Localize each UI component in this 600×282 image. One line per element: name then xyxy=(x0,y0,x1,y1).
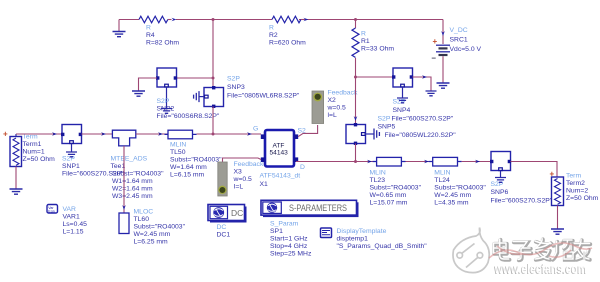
DC block DC1 xyxy=(208,205,247,239)
wire SNP2 to node A xyxy=(177,77,214,79)
wire SNP6 to Term2 xyxy=(511,162,558,178)
S2P SNP4 xyxy=(392,68,454,123)
svg-text:Num=2: Num=2 xyxy=(566,188,588,195)
ground SNP5 ref (rotated right) xyxy=(374,129,379,140)
svg-text:W1=1.64 mm: W1=1.64 mm xyxy=(112,178,153,185)
svg-text:X3: X3 xyxy=(234,169,243,176)
ground SNP4 ref xyxy=(397,98,408,103)
wire node A vertical x213 xyxy=(212,20,214,88)
svg-text:TL50: TL50 xyxy=(170,149,186,156)
svg-text:54143: 54143 xyxy=(270,150,289,157)
svg-text:Z=50 Ohm: Z=50 Ohm xyxy=(23,156,56,163)
svg-text:S2P: S2P xyxy=(62,156,75,163)
svg-text:Num=1: Num=1 xyxy=(23,149,45,156)
svg-text:Vdc=5.0 V: Vdc=5.0 V xyxy=(450,46,482,53)
svg-text:DC: DC xyxy=(231,208,243,218)
wire input row xyxy=(16,133,62,135)
svg-text:R: R xyxy=(361,31,366,38)
svg-text:r: r xyxy=(582,247,588,264)
svg-text:DisplayTemplate: DisplayTemplate xyxy=(337,228,387,235)
svg-text:R4: R4 xyxy=(146,32,155,39)
wire top rail xyxy=(119,19,443,21)
svg-text:X1: X1 xyxy=(260,181,269,188)
resistor R4 xyxy=(139,16,179,46)
svg-text:S2P: S2P xyxy=(393,99,406,106)
transistor U1 ATF54143 xyxy=(260,130,301,188)
ground SNP2 input xyxy=(132,91,145,96)
svg-text:File="600S270.S2P": File="600S270.S2P" xyxy=(392,116,454,123)
svg-text:File="600S270.S2P": File="600S270.S2P" xyxy=(491,198,553,205)
junction top rail R1 xyxy=(354,18,357,21)
S2P SNP2 xyxy=(156,68,220,120)
svg-text:Step=25 MHz: Step=25 MHz xyxy=(270,251,312,258)
svg-text:L=4.35 mm: L=4.35 mm xyxy=(434,200,469,207)
svg-text:VAR1: VAR1 xyxy=(63,214,80,221)
svg-text:w=0.5: w=0.5 xyxy=(327,105,347,112)
svg-text:R=33 Ohm: R=33 Ohm xyxy=(361,46,394,53)
svg-text:ATF: ATF xyxy=(273,143,285,150)
svg-text:DC1: DC1 xyxy=(217,232,231,239)
wire SNP3 to input row xyxy=(212,107,214,135)
svg-text:SNP1: SNP1 xyxy=(62,163,80,170)
svg-text:V_DC: V_DC xyxy=(450,27,468,34)
ground SNP3 ref (rotated left) xyxy=(194,91,199,102)
junction x213/SNP2 xyxy=(212,77,215,80)
svg-text:G: G xyxy=(253,126,258,133)
svg-text:–: – xyxy=(432,54,437,63)
svg-text:Subst="RO4003": Subst="RO4003" xyxy=(434,185,486,192)
feedback X2 xyxy=(312,90,358,124)
watermark chinese text xyxy=(494,239,590,260)
svg-text:Tee1: Tee1 xyxy=(111,163,126,170)
svg-text:Z=50 Ohm: Z=50 Ohm xyxy=(566,195,599,202)
svg-text:Subst="RO4003": Subst="RO4003" xyxy=(134,224,186,231)
ground Term2 xyxy=(551,229,564,234)
wire SNP1 to Tee1 xyxy=(82,133,113,135)
svg-text:MTEE_ADS: MTEE_ADS xyxy=(111,156,148,163)
ground Term1 xyxy=(10,189,23,194)
resistor R1 xyxy=(352,20,394,78)
ground SNP1 ref xyxy=(66,152,77,157)
svg-text:+: + xyxy=(3,130,8,139)
wire SNP2 left to ground xyxy=(139,78,158,91)
svg-text:L=1.15: L=1.15 xyxy=(63,229,84,236)
junction node input row xyxy=(212,133,215,136)
ground top-left xyxy=(113,20,126,37)
svg-text:Term2: Term2 xyxy=(566,180,585,187)
svg-text:MLIN: MLIN xyxy=(434,170,450,177)
wire R1 node to SNP4 xyxy=(356,76,394,78)
svg-text:SNP3: SNP3 xyxy=(227,84,245,91)
svg-text:SRC1: SRC1 xyxy=(450,37,468,44)
svg-text:Subst="RO4003": Subst="RO4003" xyxy=(370,185,422,192)
svg-text:File="0805WL220.S2P": File="0805WL220.S2P" xyxy=(385,132,457,139)
MLIN TL23 xyxy=(370,157,422,206)
svg-text:Term1: Term1 xyxy=(23,141,42,148)
svg-text:MLIN: MLIN xyxy=(170,142,186,149)
wire Tee1 to TL50 xyxy=(136,133,168,135)
svg-text:File="600S6R8.S2P": File="600S6R8.S2P" xyxy=(157,113,220,120)
S2P SNP6 xyxy=(490,152,553,205)
S2P SNP1 xyxy=(61,125,124,178)
wire TL24 to SNP6 xyxy=(462,161,491,163)
svg-text:Feedback: Feedback xyxy=(328,90,358,97)
svg-text:W3=2.45 mm: W3=2.45 mm xyxy=(112,193,153,200)
watermark red tint strokes xyxy=(489,243,592,258)
ground SNP6 ref xyxy=(495,178,506,183)
wire TL50 to gate xyxy=(197,133,262,135)
wire SNP4 out to ground xyxy=(413,77,432,91)
svg-text:Subst="RO4003": Subst="RO4003" xyxy=(112,171,164,178)
svg-text:I=L: I=L xyxy=(234,184,244,191)
svg-text:L=15.07 mm: L=15.07 mm xyxy=(370,200,408,207)
svg-text:L=6.15 mm: L=6.15 mm xyxy=(170,172,205,179)
svg-text:R2: R2 xyxy=(269,32,278,39)
wire drain row xyxy=(296,161,377,163)
svg-text:disptemp1: disptemp1 xyxy=(337,236,369,243)
svg-text:S-PARAMETERS: S-PARAMETERS xyxy=(289,203,347,213)
svg-text:w=0.5: w=0.5 xyxy=(233,176,253,183)
svg-text:X2: X2 xyxy=(328,97,337,104)
svg-text:TL24: TL24 xyxy=(434,177,450,184)
svg-text:SP1: SP1 xyxy=(270,228,283,235)
svg-text:VAR: VAR xyxy=(63,206,77,213)
svg-text:ATF54143_dt: ATF54143_dt xyxy=(260,173,301,180)
DisplayTemplate disptemp1 xyxy=(321,228,428,250)
term Term1 xyxy=(3,130,55,189)
svg-text:S2P: S2P xyxy=(227,76,240,83)
svg-text:SNP5: SNP5 xyxy=(378,124,396,131)
ground SNP2 ref xyxy=(161,109,172,114)
MLIN TL24 xyxy=(429,157,487,206)
svg-text:S2P: S2P xyxy=(157,98,170,105)
svg-text:D: D xyxy=(300,164,305,171)
svg-text:W=1.64 mm: W=1.64 mm xyxy=(170,164,207,171)
svg-text:TL23: TL23 xyxy=(370,177,386,184)
svg-text:S_Param: S_Param xyxy=(270,221,299,228)
svg-text:Subst="RO4003": Subst="RO4003" xyxy=(170,157,222,164)
svg-text:S2P: S2P xyxy=(378,116,391,123)
MTEE_ADS Tee1 xyxy=(111,130,165,200)
svg-text:File="0805WL6R8.S2P": File="0805WL6R8.S2P" xyxy=(227,93,300,100)
DC source V_DC SRC1 xyxy=(432,20,482,83)
svg-text:R=82 Ohm: R=82 Ohm xyxy=(146,40,179,47)
term Term2 xyxy=(550,170,599,229)
svg-text:DC: DC xyxy=(217,224,227,231)
junction top rail x213 xyxy=(212,18,215,21)
svg-text:Ls=0.45: Ls=0.45 xyxy=(63,221,88,228)
svg-text:l=L: l=L xyxy=(328,112,337,119)
svg-text:L=6.25 mm: L=6.25 mm xyxy=(134,239,169,246)
resistor R2 xyxy=(269,16,309,46)
svg-text:Feedback: Feedback xyxy=(234,161,264,168)
ground under SRC1 xyxy=(437,83,450,88)
svg-text:W=0.65 mm: W=0.65 mm xyxy=(370,192,407,199)
svg-text:W=2.45 mm: W=2.45 mm xyxy=(134,231,171,238)
svg-text:Start=1 GHz: Start=1 GHz xyxy=(270,236,308,243)
svg-text:W2=1.64 mm: W2=1.64 mm xyxy=(112,186,153,193)
S2P SNP3 xyxy=(199,76,300,109)
wire TL23 to TL24 xyxy=(406,161,433,163)
svg-text:TL60: TL60 xyxy=(134,216,150,223)
svg-text:SNP6: SNP6 xyxy=(491,189,509,196)
svg-text:MLIN: MLIN xyxy=(370,170,386,177)
svg-text:R=620 Ohm: R=620 Ohm xyxy=(269,40,306,47)
MLOC TL60 xyxy=(119,209,186,246)
S-PARAMETERS block SP1 xyxy=(261,200,359,257)
wire S2 to feedback X2 xyxy=(298,125,317,137)
svg-text:R: R xyxy=(146,25,151,32)
svg-text:W=2.45 mm: W=2.45 mm xyxy=(434,192,471,199)
ground SNP4 out xyxy=(426,91,437,96)
svg-text:Term: Term xyxy=(566,173,581,180)
svg-text:Eqn: Eqn xyxy=(48,210,54,214)
wire Tee1 stub down to TL60 xyxy=(123,146,125,213)
wire SNP5 to drain row xyxy=(355,144,357,162)
svg-text:MLOC: MLOC xyxy=(134,209,154,216)
svg-text:"S_Params_Quad_dB_Smith": "S_Params_Quad_dB_Smith" xyxy=(337,243,428,250)
VAR VAR1 xyxy=(47,205,87,236)
svg-text:www.elecfans.com: www.elecfans.com xyxy=(494,260,587,276)
MLIN TL50 xyxy=(165,130,223,178)
watermark molecule logo xyxy=(453,228,489,273)
feedback X3 xyxy=(218,158,264,196)
svg-text:SNP4: SNP4 xyxy=(393,107,411,114)
S2P SNP5 xyxy=(346,116,456,146)
svg-text:R1: R1 xyxy=(361,38,370,45)
svg-text:R: R xyxy=(269,25,274,32)
svg-text:Stop=4 GHz: Stop=4 GHz xyxy=(270,243,308,250)
